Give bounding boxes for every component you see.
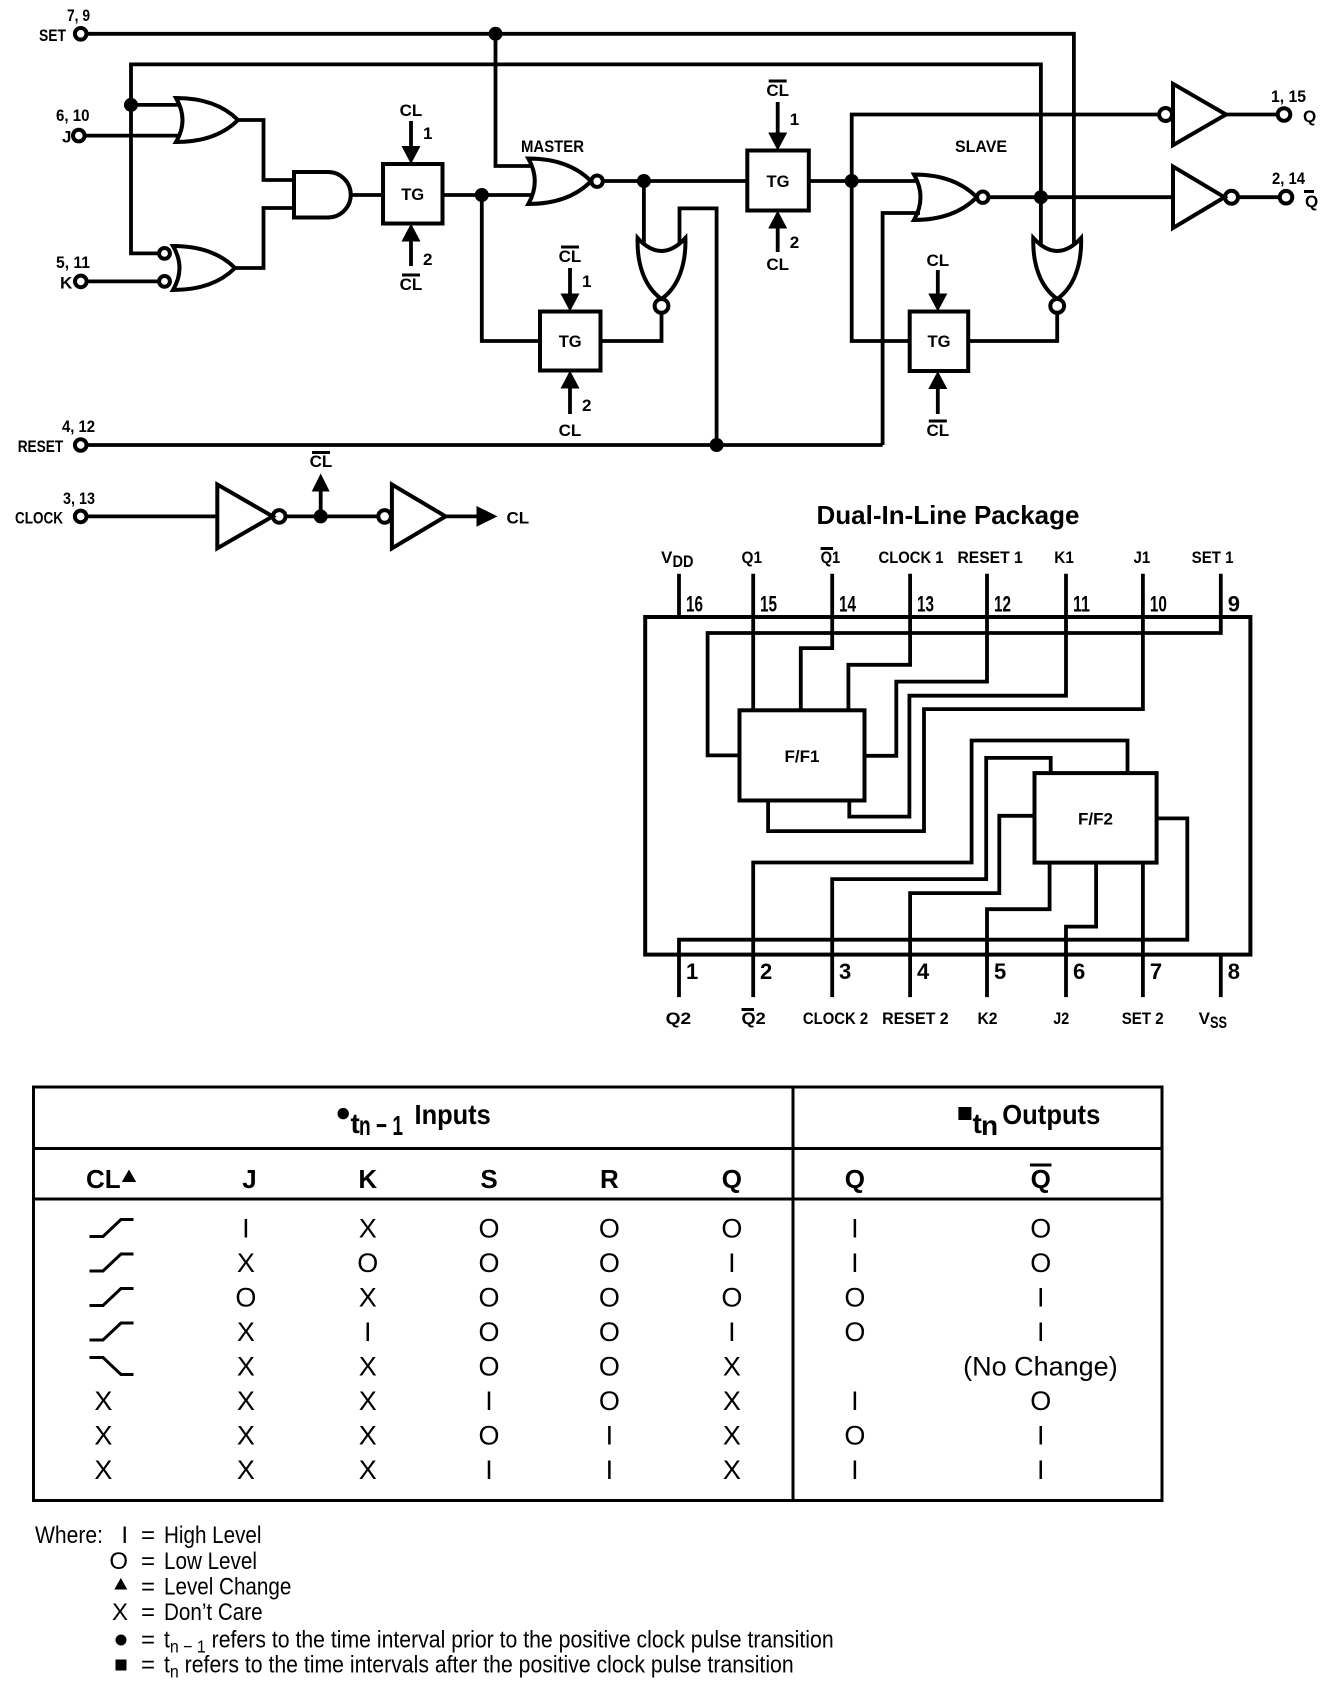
svg-text:2: 2 (582, 396, 591, 415)
node CLbar tap (314, 509, 328, 523)
node on SET net feeding master NOR (489, 27, 503, 41)
wire junction up to Q line and right to Q buffer (852, 115, 1158, 182)
svg-text:SLAVE: SLAVE (955, 137, 1007, 156)
table row 2 cells (237, 1248, 1051, 1278)
wire SET branch down to master NOR upper input (496, 34, 535, 166)
wire CLOCK input to inverter (87, 515, 218, 519)
svg-text:TG: TG (767, 172, 790, 191)
arrow CL pin2 into TG3 bottom (768, 211, 799, 253)
svg-text:Level Change: Level Change (164, 1573, 291, 1600)
svg-text:2: 2 (790, 233, 799, 252)
svg-text:9: 9 (1228, 592, 1240, 617)
wire SET net: SET terminal to right-side vertical into NOR G8 right input (87, 34, 1074, 247)
svg-text:SET: SET (39, 26, 67, 45)
svg-text:O: O (357, 1248, 378, 1278)
svg-text:R: R (600, 1164, 619, 1194)
arrow CLbar pin1 into TG3 top (768, 102, 799, 151)
svg-text:2: 2 (423, 250, 432, 269)
svg-text:O: O (478, 1421, 499, 1451)
svg-text:10: 10 (1150, 592, 1167, 617)
DIP pin 14 route Q1bar into F/F1 top (801, 574, 832, 711)
svg-text:I: I (851, 1386, 859, 1416)
svg-text:4: 4 (917, 959, 930, 984)
buffer U1 to Q output with input bubble (1159, 84, 1226, 145)
legend triangle = Level Change (114, 1573, 291, 1600)
terminal Q pins 1,15 (1271, 87, 1316, 126)
svg-text:Q1: Q1 (821, 548, 841, 567)
svg-text:RESET 1: RESET 1 (958, 548, 1023, 567)
or-gate G1 (J side) (176, 98, 238, 142)
DIP pin 12 route RESET1 into F/F1 right (865, 574, 988, 756)
svg-text:O: O (844, 1317, 865, 1347)
svg-text:7, 9: 7, 9 (67, 6, 90, 25)
svg-text:CL: CL (400, 275, 423, 294)
table row 5 clock falling-edge symbol (90, 1358, 134, 1375)
svg-text:=: = (141, 1548, 155, 1575)
svg-text:I: I (485, 1455, 493, 1485)
table row 3 cells (235, 1283, 1044, 1313)
svg-text:X: X (359, 1421, 377, 1451)
DIP pin 5 route K2 into F/F2 bottom (987, 863, 1050, 998)
svg-text:O: O (721, 1283, 742, 1313)
svg-text:CL: CL (559, 421, 582, 440)
svg-text:CL: CL (310, 452, 333, 471)
svg-text:O: O (599, 1317, 620, 1347)
svg-text:=: = (141, 1574, 155, 1601)
transmission gate TG1 (383, 164, 443, 224)
svg-text:12: 12 (994, 592, 1011, 617)
DIP pin 6 route J2 into F/F2 bottom (1066, 863, 1096, 998)
table header tn Outputs (958, 1099, 1100, 1141)
table row 8 cells (94, 1455, 1044, 1485)
svg-text:Q2: Q2 (666, 1009, 692, 1028)
DIP pin 13 route CLOCK1 into F/F1 top (848, 574, 910, 711)
table header tn-1 Inputs (338, 1099, 491, 1141)
svg-text:8: 8 (1228, 959, 1240, 984)
svg-text:O: O (109, 1548, 128, 1575)
wire Q buffer output to terminal (1226, 113, 1278, 117)
svg-text:16: 16 (686, 592, 703, 617)
svg-text:MASTER: MASTER (521, 137, 584, 156)
svg-text:I: I (606, 1455, 614, 1485)
inverter U3 clock with output bubble (217, 485, 285, 549)
svg-text:F/F2: F/F2 (1078, 810, 1113, 829)
wire feedback from Qbar node: up, across top, down left side to G1/G2 (131, 64, 1041, 253)
svg-text:K: K (358, 1164, 377, 1194)
DIP pin 11 route K1 into F/F1 bottom (849, 574, 1066, 817)
svg-text:6, 10: 6, 10 (56, 106, 90, 125)
DIP pin 10 route J1 into F/F1 bottom (768, 574, 1143, 831)
svg-text:X: X (723, 1352, 741, 1382)
vertical nor-gate G5 (points down) with bubble (638, 238, 686, 313)
terminal SET pins 7,9 (39, 6, 90, 45)
terminal J pins 6,10 (56, 106, 90, 147)
svg-text:1: 1 (582, 272, 591, 291)
DIP pin 3 route CLOCK2 into F/F2 top (832, 758, 1050, 997)
svg-text:DD: DD (673, 552, 694, 571)
svg-text:1: 1 (686, 959, 698, 984)
svg-text:Q2: Q2 (742, 1009, 766, 1028)
svg-text:X: X (112, 1599, 128, 1626)
wire feedback branch to OR G1 upper input (131, 103, 185, 107)
node TG1 output junction (475, 188, 489, 202)
arrow CLbar tap upward (312, 474, 330, 517)
node feedback to OR G1 upper input (124, 98, 138, 112)
legend bullet = tn-1 definition (116, 1625, 834, 1656)
arrow CLbar pin1 into TG2 top (561, 268, 592, 312)
svg-text:=: = (141, 1627, 155, 1654)
DIP pin 2 route Q2bar into F/F2 top (753, 741, 1127, 998)
svg-text:Q: Q (845, 1164, 865, 1194)
svg-text:=: = (141, 1599, 155, 1626)
svg-text:15: 15 (760, 592, 777, 617)
and-gate G3 (294, 172, 351, 218)
svg-text:Low Level: Low Level (164, 1548, 257, 1575)
wire J input to OR G1 lower input (85, 134, 185, 138)
svg-text:X: X (723, 1421, 741, 1451)
svg-text:I: I (1037, 1283, 1045, 1313)
svg-text:13: 13 (917, 592, 934, 617)
nor-gate G2 (K side) input bubbles (159, 246, 235, 290)
legend I = High Level (121, 1522, 261, 1549)
arrow CLbar pin2 into TG1 bottom (402, 224, 433, 270)
svg-text:4, 12: 4, 12 (62, 417, 95, 436)
table column header Qbar out (1030, 1164, 1052, 1194)
DIP pin 9 route SET1 into F/F1 left (708, 574, 1221, 756)
svg-text:Q: Q (1031, 1164, 1051, 1194)
transmission gate TG3 (747, 151, 809, 211)
table row 3 clock rising-edge symbol (90, 1289, 134, 1306)
transmission gate TG4 (910, 312, 969, 372)
table row 4 cells (237, 1317, 1045, 1347)
svg-text:=: = (141, 1522, 155, 1549)
svg-text:O: O (844, 1283, 865, 1313)
svg-text:High Level: High Level (164, 1522, 262, 1549)
wire AND G3 output to TG1 (351, 193, 383, 197)
svg-text:I: I (851, 1248, 859, 1278)
svg-text:O: O (599, 1248, 620, 1278)
svg-text:n: n (981, 1110, 998, 1141)
terminal Qbar pins 2,14 (1272, 169, 1318, 211)
DIP pin 16 stub VDD (677, 574, 681, 617)
node RESET to G5 branch (710, 438, 724, 452)
DIP flip-flop F/F2 box (1035, 773, 1157, 863)
svg-text:O: O (478, 1352, 499, 1382)
svg-text:tn refers to the time interval: tn refers to the time intervals after th… (164, 1650, 794, 1681)
svg-text:I: I (728, 1317, 736, 1347)
wire TG3 output to slave NOR upper input (809, 179, 920, 183)
arrow CL pin1 into TG1 top (402, 121, 433, 164)
svg-text:CL: CL (926, 421, 949, 440)
svg-text:n − 1: n − 1 (359, 1110, 403, 1141)
svg-text:F/F1: F/F1 (785, 747, 820, 766)
svg-text:O: O (599, 1386, 620, 1416)
svg-text:CL: CL (507, 509, 530, 528)
svg-text:O: O (599, 1214, 620, 1244)
svg-text:X: X (94, 1386, 112, 1416)
svg-text:2: 2 (760, 959, 772, 984)
nor-gate G4 MASTER with output bubble (528, 159, 603, 205)
svg-text:Where:: Where: (35, 1522, 103, 1549)
svg-text:V: V (661, 548, 673, 567)
svg-text:X: X (359, 1214, 377, 1244)
wire RESET net (87, 443, 883, 447)
buffer U2 to Qbar output with output bubble (1173, 167, 1238, 229)
DIP pin 7 route SET2 into F/F2 bottom (1141, 863, 1145, 998)
svg-text:O: O (235, 1283, 256, 1313)
node master output junction (637, 174, 651, 188)
DIP label Q1bar (821, 548, 841, 567)
svg-text:CL: CL (400, 101, 423, 120)
svg-text:Inputs: Inputs (415, 1099, 491, 1130)
svg-text:X: X (237, 1352, 255, 1382)
legend O = Low Level (109, 1548, 257, 1575)
svg-text:SET 2: SET 2 (1122, 1009, 1164, 1028)
arrow CL pin2 into TG2 bottom (561, 371, 592, 416)
svg-text:O: O (599, 1352, 620, 1382)
svg-text:=: = (141, 1652, 155, 1679)
DIP pin 15 route Q1 into F/F1 top (751, 574, 755, 711)
svg-text:SS: SS (1210, 1013, 1227, 1032)
vertical nor-gate G8 (points down) with bubble (1033, 238, 1081, 313)
svg-text:X: X (359, 1386, 377, 1416)
wire master NOR output to TG3 (603, 179, 748, 183)
svg-text:O: O (478, 1214, 499, 1244)
table row 1 cells (242, 1214, 1051, 1244)
svg-text:X: X (723, 1386, 741, 1416)
svg-text:14: 14 (839, 592, 857, 617)
wire K input to NOR G2 lower bubble (87, 279, 158, 283)
svg-text:Q: Q (722, 1164, 742, 1194)
svg-text:J: J (62, 128, 71, 147)
wire RESET riser to slave NOR lower input (883, 213, 920, 445)
svg-text:K2: K2 (978, 1009, 998, 1028)
svg-text:X: X (94, 1455, 112, 1485)
svg-text:5: 5 (994, 959, 1006, 984)
table row 4 clock rising-edge symbol (90, 1323, 134, 1340)
svg-text:CL: CL (926, 251, 949, 270)
svg-text:I: I (1037, 1421, 1045, 1451)
table row 5 cells with No Change (237, 1352, 1118, 1382)
svg-text:TG: TG (401, 185, 424, 204)
legend square = tn definition (116, 1650, 794, 1681)
svg-text:6: 6 (1073, 959, 1085, 984)
table row 1 clock rising-edge symbol (90, 1220, 134, 1237)
svg-text:I: I (364, 1317, 372, 1347)
svg-text:Q1: Q1 (742, 548, 763, 567)
label CLbar above TG2 (559, 247, 582, 266)
transmission gate TG2 (540, 312, 601, 371)
arrow CL into TG4 top (928, 270, 947, 312)
svg-text:O: O (1030, 1248, 1051, 1278)
svg-text:X: X (94, 1421, 112, 1451)
svg-text:I: I (851, 1455, 859, 1485)
svg-text:CL: CL (766, 81, 789, 100)
svg-text:5, 11: 5, 11 (56, 253, 90, 272)
wire slave NOR output to Qbar buffer (989, 195, 1174, 199)
svg-text:X: X (359, 1455, 377, 1485)
svg-text:O: O (1030, 1214, 1051, 1244)
node TG3 output junction (845, 174, 859, 188)
svg-text:I: I (851, 1214, 859, 1244)
truth table header rule 1 (34, 1147, 1163, 1150)
svg-text:RESET: RESET (18, 437, 64, 456)
svg-text:Don’t Care: Don’t Care (164, 1599, 263, 1626)
truth table header rule 2 (34, 1198, 1163, 1201)
table row 6 cells (94, 1386, 1051, 1416)
svg-text:V: V (1199, 1009, 1211, 1028)
truth table outer border (34, 1087, 1163, 1501)
svg-text:3, 13: 3, 13 (63, 489, 95, 508)
svg-text:1: 1 (790, 110, 799, 129)
wire junction down to vertical NOR G5 left input (642, 181, 646, 247)
label CLbar above TG3 (766, 81, 789, 100)
svg-text:O: O (1030, 1386, 1051, 1416)
DIP label Q2bar (742, 1009, 766, 1028)
wire G5 right input up and over to RESET riser (680, 208, 717, 445)
svg-text:X: X (359, 1283, 377, 1313)
svg-text:Outputs: Outputs (1002, 1099, 1100, 1130)
svg-text:SET 1: SET 1 (1192, 548, 1234, 567)
node slave output junction (1034, 190, 1048, 204)
svg-text:(No Change): (No Change) (963, 1352, 1118, 1382)
svg-text:O: O (721, 1214, 742, 1244)
svg-text:I: I (606, 1421, 614, 1451)
svg-text:I: I (1037, 1317, 1045, 1347)
svg-text:Q: Q (1305, 192, 1318, 211)
svg-text:CL: CL (766, 255, 789, 274)
truth table section divider (792, 1087, 795, 1501)
DIP pin 4 route RESET2 into F/F2 left (910, 816, 1034, 997)
svg-text:O: O (478, 1248, 499, 1278)
svg-text:CL: CL (86, 1164, 121, 1194)
DIP package outline (645, 617, 1250, 955)
terminal CLOCK pins 3,13 (15, 489, 95, 528)
arrow CLbar into TG4 bottom (928, 371, 947, 414)
svg-text:X: X (237, 1421, 255, 1451)
svg-text:I: I (242, 1214, 250, 1244)
svg-text:1, 15: 1, 15 (1271, 87, 1306, 106)
table column header CL with level-change triangle (86, 1164, 136, 1194)
svg-text:X: X (237, 1386, 255, 1416)
wire junction down to vertical NOR G8 left input (1039, 197, 1043, 247)
DIP pin 1 route Q2 into F/F2 right (679, 818, 1187, 997)
svg-text:TG: TG (559, 332, 582, 351)
svg-text:X: X (359, 1352, 377, 1382)
wire junction down to TG2 input (482, 195, 540, 341)
svg-text:Dual-In-Line Package: Dual-In-Line Package (817, 500, 1080, 530)
legend X = Don't Care (112, 1599, 263, 1626)
wire TG1 output to master NOR lower input (443, 193, 535, 197)
svg-text:J2: J2 (1053, 1009, 1069, 1028)
DIP flip-flop F/F1 box (740, 710, 865, 800)
DIP pin 8 stub VSS (1219, 955, 1223, 998)
svg-text:CLOCK 2: CLOCK 2 (803, 1009, 868, 1028)
svg-text:CL: CL (559, 247, 582, 266)
buffer U4 clock with input bubble (378, 485, 445, 549)
svg-text:7: 7 (1150, 959, 1162, 984)
svg-text:TG: TG (928, 332, 951, 351)
svg-text:X: X (723, 1455, 741, 1485)
svg-text:I: I (121, 1522, 128, 1549)
svg-text:K: K (60, 274, 73, 293)
nor-gate G7 SLAVE with output bubble (914, 175, 989, 221)
label CLbar above clock tap (310, 452, 333, 471)
wire buffer output with CL arrowhead (446, 506, 498, 527)
svg-text:I: I (485, 1386, 493, 1416)
wire Qbar buffer output to terminal (1238, 195, 1280, 199)
table row 2 clock rising-edge symbol (90, 1254, 134, 1271)
svg-text:1: 1 (423, 124, 432, 143)
terminal RESET pins 4,12 (18, 417, 95, 456)
wire NOR G2 output to AND G3 lower input (234, 208, 296, 268)
wire junction down to TG4 input (852, 181, 910, 341)
svg-text:X: X (237, 1248, 255, 1278)
wire OR G1 output to AND G3 upper input (236, 120, 296, 180)
svg-text:11: 11 (1073, 592, 1090, 617)
svg-text:2, 14: 2, 14 (1272, 169, 1305, 188)
svg-text:3: 3 (839, 959, 851, 984)
label CLbar below TG1 (400, 275, 423, 294)
svg-text:X: X (237, 1455, 255, 1485)
wire inverter output to buffer U4 (286, 515, 379, 519)
wire G5 bubble output down to TG2 output line (601, 313, 662, 341)
svg-text:O: O (478, 1283, 499, 1313)
svg-text:O: O (844, 1421, 865, 1451)
svg-text:J: J (242, 1164, 256, 1194)
terminal K pins 5,11 (56, 253, 90, 293)
svg-text:CLOCK: CLOCK (15, 509, 64, 528)
svg-text:RESET 2: RESET 2 (882, 1009, 949, 1028)
svg-text:K1: K1 (1054, 548, 1074, 567)
svg-text:O: O (599, 1283, 620, 1313)
wire G8 bubble output down to TG4 output line (968, 313, 1057, 341)
svg-text:Q: Q (1303, 107, 1316, 126)
svg-text:S: S (480, 1164, 497, 1194)
svg-text:I: I (1037, 1455, 1045, 1485)
svg-text:X: X (237, 1317, 255, 1347)
table row 7 cells (94, 1421, 1044, 1451)
label CLbar below TG4 (926, 421, 949, 440)
svg-text:O: O (478, 1317, 499, 1347)
svg-text:J1: J1 (1134, 548, 1151, 567)
svg-text:CLOCK 1: CLOCK 1 (879, 548, 944, 567)
svg-text:I: I (728, 1248, 736, 1278)
